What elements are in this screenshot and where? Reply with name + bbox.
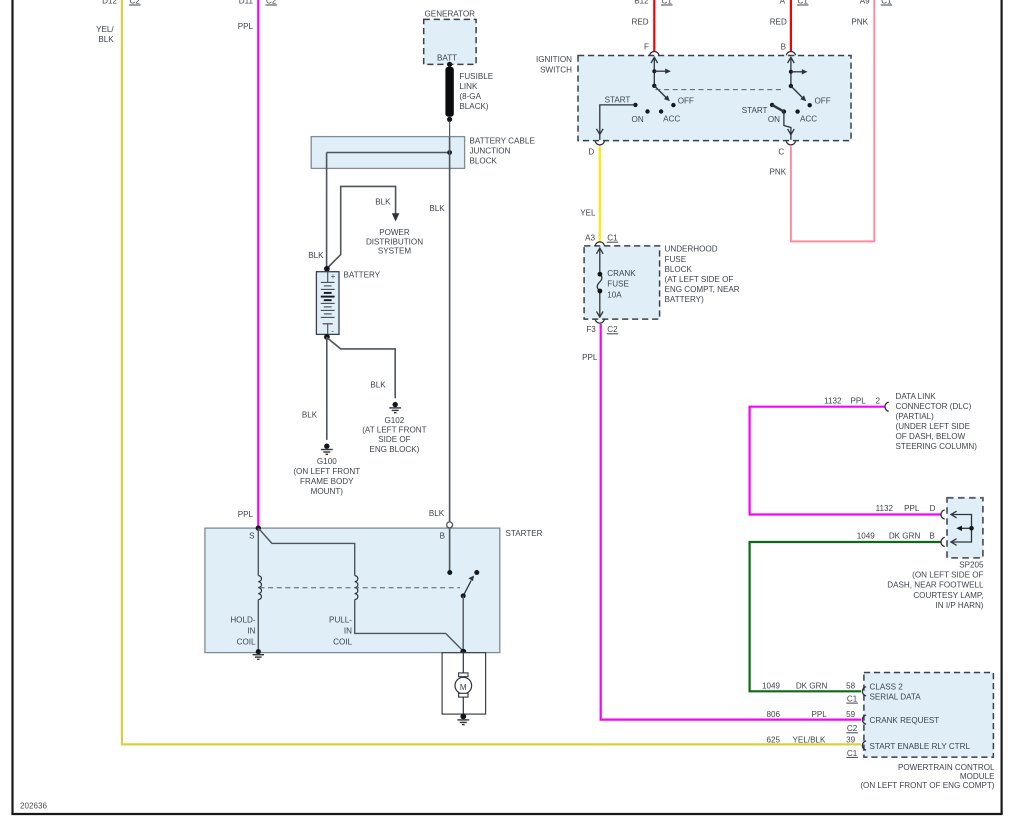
svg-text:POWER: POWER — [379, 228, 410, 237]
svg-text:58: 58 — [846, 681, 856, 690]
svg-text:F3: F3 — [586, 325, 596, 334]
crank fuse 10A — [597, 248, 604, 317]
svg-text:BLK: BLK — [375, 197, 391, 206]
svg-text:F: F — [644, 43, 649, 52]
generator U1 dashed box — [424, 19, 476, 64]
wire RED A C1 to ignition B — [790, 0, 792, 51]
svg-text:DK GRN: DK GRN — [889, 532, 921, 541]
starter box — [205, 528, 500, 653]
svg-text:202636: 202636 — [20, 802, 48, 811]
node S — [256, 525, 261, 530]
svg-text:YEL: YEL — [580, 208, 596, 217]
svg-text:RED: RED — [770, 17, 787, 26]
svg-text:ENG BLOCK): ENG BLOCK) — [369, 445, 419, 454]
connector B arc — [786, 51, 795, 55]
svg-text:39: 39 — [846, 736, 856, 745]
svg-text:1132: 1132 — [876, 504, 894, 513]
svg-text:10A: 10A — [607, 290, 622, 299]
svg-text:YEL/BLK: YEL/BLK — [793, 736, 826, 745]
PCM pin 39 connector arc — [862, 741, 866, 750]
svg-text:B: B — [781, 43, 786, 52]
splice SP205 dashed box — [947, 498, 983, 558]
svg-text:LINK: LINK — [459, 82, 478, 91]
battery BT1 — [324, 266, 330, 272]
svg-text:D: D — [588, 148, 594, 157]
svg-text:OFF: OFF — [815, 96, 831, 105]
connector F3 C2 arc — [595, 319, 604, 323]
pole 1 horizontal arrow — [654, 70, 667, 72]
PCM pin 59 connector arc — [862, 715, 866, 724]
pole 2 junction node — [789, 70, 793, 74]
svg-text:CRANK REQUEST: CRANK REQUEST — [870, 716, 940, 725]
pole 2 blade START to ON — [772, 105, 784, 112]
ignition pole 2: feed line with up arrow — [788, 57, 795, 86]
svg-text:BATTERY: BATTERY — [344, 271, 381, 280]
wire DK GRN SP205 to PCM class 2 — [750, 542, 942, 691]
hold-in coil L1 — [258, 576, 261, 600]
svg-text:BATTERY): BATTERY) — [665, 295, 705, 304]
svg-text:BATTERY CABLE: BATTERY CABLE — [470, 137, 536, 146]
connector F arc — [650, 51, 659, 55]
svg-text:-: - — [331, 326, 334, 335]
ground G100 — [324, 444, 329, 449]
svg-text:RED: RED — [632, 17, 649, 26]
svg-text:BLK: BLK — [429, 509, 445, 518]
svg-text:B: B — [440, 531, 445, 540]
battery cable junction block — [311, 137, 464, 169]
svg-text:ENG COMPT, NEAR: ENG COMPT, NEAR — [665, 285, 740, 294]
svg-text:ON: ON — [632, 115, 644, 124]
svg-text:C1: C1 — [847, 749, 858, 758]
svg-text:(AT LEFT FRONT: (AT LEFT FRONT — [362, 425, 426, 434]
svg-text:STEERING COLUMN): STEERING COLUMN) — [896, 442, 978, 451]
svg-text:CRANK: CRANK — [607, 269, 636, 278]
svg-text:MODULE: MODULE — [960, 772, 995, 781]
ground G102 — [393, 402, 398, 407]
svg-text:S: S — [249, 531, 255, 540]
junction node on bus — [447, 150, 452, 155]
svg-text:C: C — [778, 148, 784, 157]
svg-text:G100: G100 — [317, 457, 337, 466]
svg-text:ACC: ACC — [800, 115, 817, 124]
svg-text:PPL: PPL — [238, 22, 254, 31]
fusible link F (8-GA black) — [445, 67, 453, 117]
svg-text:FRAME BODY: FRAME BODY — [300, 477, 354, 486]
connector D arc on SP205 — [941, 510, 945, 519]
svg-text:2: 2 — [875, 397, 880, 406]
svg-text:SP205: SP205 — [959, 560, 984, 569]
svg-text:C1: C1 — [607, 234, 618, 243]
svg-text:OFF: OFF — [678, 96, 694, 105]
svg-text:PNK: PNK — [770, 168, 787, 177]
wire from B into switch contact — [449, 528, 451, 570]
svg-text:A9: A9 — [860, 0, 870, 6]
svg-text:+: + — [331, 272, 336, 281]
svg-text:PPL: PPL — [904, 504, 920, 513]
svg-text:625: 625 — [766, 736, 780, 745]
svg-text:MOUNT): MOUNT) — [311, 487, 344, 496]
svg-text:COURTESY LAMP,: COURTESY LAMP, — [913, 591, 983, 600]
pole 2 horizontal arrow — [791, 71, 804, 73]
svg-text:BLOCK: BLOCK — [665, 265, 693, 274]
pole 1 blade toward OFF — [654, 86, 667, 99]
wire YEL/BLK from D12 C2 (left vertical + bottom horizontal to PCM pin 39) — [122, 0, 861, 744]
pole 1 contacts START ON ACC OFF — [633, 103, 637, 107]
svg-text:CLASS 2: CLASS 2 — [870, 682, 904, 691]
svg-text:SYSTEM: SYSTEM — [378, 247, 412, 256]
svg-text:(UNDER LEFT SIDE: (UNDER LEFT SIDE — [896, 422, 971, 431]
svg-text:D: D — [930, 504, 936, 513]
connector A3 C1 arc — [595, 242, 604, 246]
svg-text:GENERATOR: GENERATOR — [425, 9, 476, 18]
svg-text:START: START — [742, 106, 768, 115]
wire BLK bus to battery + — [326, 153, 328, 269]
svg-text:BLK: BLK — [98, 35, 114, 44]
arrow to power distribution system — [392, 213, 400, 221]
mechanical link dashed in starter — [260, 587, 461, 589]
svg-text:(ON LEFT FRONT: (ON LEFT FRONT — [293, 467, 360, 476]
svg-text:BLACK): BLACK) — [459, 102, 489, 111]
svg-text:DASH, NEAR FOOTWELL: DASH, NEAR FOOTWELL — [887, 581, 984, 590]
svg-text:A3: A3 — [585, 234, 595, 243]
svg-text:A: A — [780, 0, 786, 6]
svg-text:(ON LEFT FRONT OF ENG COMPT): (ON LEFT FRONT OF ENG COMPT) — [860, 781, 994, 790]
svg-text:STARTER: STARTER — [506, 529, 543, 538]
svg-text:PPL: PPL — [811, 710, 827, 719]
svg-text:BATT: BATT — [437, 54, 457, 63]
svg-text:BLK: BLK — [302, 410, 318, 419]
solenoid blade with arrow — [463, 581, 471, 596]
svg-text:G102: G102 — [384, 416, 404, 425]
underhood fuse block dashed box — [584, 246, 660, 319]
wire BLK battery to power distribution arrow — [327, 186, 396, 268]
wire PPL fuse block to PCM crank request — [601, 324, 861, 720]
svg-text:BLK: BLK — [370, 381, 386, 390]
svg-text:IN I/P HARN): IN I/P HARN) — [936, 601, 984, 610]
pole 1 pivot node — [652, 84, 656, 88]
wire YEL from D to underhood fuse block — [599, 146, 601, 242]
wire motor to ground — [462, 697, 464, 714]
wire S to hold-in coil — [257, 528, 259, 576]
svg-text:C1: C1 — [847, 695, 858, 704]
wire pull-in coil to common node — [355, 600, 464, 652]
svg-text:D11: D11 — [239, 0, 254, 6]
svg-text:C2: C2 — [607, 325, 618, 334]
svg-text:D12: D12 — [102, 0, 117, 6]
ground at hold-in coil — [256, 649, 261, 654]
connector D arc — [595, 141, 604, 145]
svg-text:JUNCTION: JUNCTION — [470, 147, 511, 156]
ignition switch SW1 dashed box — [578, 56, 851, 141]
svg-text:DISTRIBUTION: DISTRIBUTION — [366, 237, 423, 246]
svg-text:IGNITION: IGNITION — [536, 55, 572, 64]
svg-text:PPL: PPL — [238, 510, 254, 519]
common node on starter bottom edge — [460, 649, 466, 655]
wire blade to common node — [462, 596, 464, 652]
svg-text:YEL/: YEL/ — [96, 25, 114, 34]
svg-text:SERIAL DATA: SERIAL DATA — [870, 693, 922, 702]
connector arc at DLC pin 2 — [885, 402, 889, 411]
svg-text:SIDE OF: SIDE OF — [378, 435, 410, 444]
svg-text:B12: B12 — [634, 0, 649, 6]
svg-text:M: M — [460, 683, 467, 692]
svg-text:1132: 1132 — [824, 397, 842, 406]
wire RED B12 C1 to ignition F — [653, 0, 655, 51]
splice internal bus — [951, 511, 972, 545]
svg-text:UNDERHOOD: UNDERHOOD — [665, 245, 718, 254]
svg-text:FUSE: FUSE — [607, 280, 629, 289]
ignition pole 1: feed line with up arrow — [651, 57, 658, 86]
svg-text:BLK: BLK — [308, 251, 324, 260]
svg-text:COIL: COIL — [237, 637, 256, 646]
svg-text:(AT LEFT SIDE OF: (AT LEFT SIDE OF — [665, 275, 734, 284]
wire PPL branch to DLC and SP205 — [750, 407, 942, 515]
wire node to motor — [462, 652, 464, 673]
svg-text:(8-GA: (8-GA — [459, 92, 481, 101]
svg-text:C2: C2 — [847, 724, 858, 733]
svg-text:START ENABLE RLY CTRL: START ENABLE RLY CTRL — [870, 742, 971, 751]
pole 2 contacts START ON ACC OFF — [770, 103, 774, 107]
ground at motor — [460, 714, 466, 720]
wire BLK battery - to G102 — [327, 338, 395, 399]
svg-text:DK GRN: DK GRN — [796, 681, 828, 690]
wire BLK battery - to G100 — [326, 337, 328, 440]
motor housing box — [442, 653, 486, 714]
svg-text:PULL-: PULL- — [329, 615, 352, 624]
wire from START contact to connector D — [600, 105, 636, 134]
wire S to pull-in coil — [259, 528, 355, 575]
svg-text:1049: 1049 — [857, 532, 876, 541]
pull-in coil L2 — [355, 576, 358, 600]
svg-text:HOLD-: HOLD- — [230, 615, 255, 624]
svg-text:DATA LINK: DATA LINK — [896, 392, 937, 401]
svg-text:PPL: PPL — [850, 397, 866, 406]
connector B arc on SP205 — [941, 537, 945, 546]
connector C arc — [786, 141, 795, 145]
wire BLK junction block to starter B — [449, 137, 451, 522]
svg-text:POWERTRAIN CONTROL: POWERTRAIN CONTROL — [898, 763, 995, 772]
wire hold-in coil to ground — [257, 600, 259, 651]
svg-text:IN: IN — [247, 626, 255, 635]
svg-text:START: START — [605, 96, 631, 105]
svg-text:BLK: BLK — [429, 204, 445, 213]
powertrain control module dashed box — [864, 673, 994, 758]
svg-text:(ON LEFT SIDE OF: (ON LEFT SIDE OF — [912, 571, 983, 580]
svg-text:PPL: PPL — [582, 353, 598, 362]
svg-text:ON: ON — [768, 115, 780, 124]
starter solenoid contacts — [447, 570, 452, 575]
svg-text:CONNECTOR (DLC): CONNECTOR (DLC) — [896, 402, 972, 411]
wire from ON contact to connector C — [784, 112, 791, 135]
svg-text:59: 59 — [846, 710, 856, 719]
PCM pin 58 connector arc — [862, 687, 866, 696]
svg-text:B: B — [929, 532, 934, 541]
pole 2 pivot node — [789, 84, 793, 88]
svg-text:OF DASH, BELOW: OF DASH, BELOW — [896, 432, 966, 441]
motor M1 — [459, 673, 468, 677]
svg-text:PNK: PNK — [851, 17, 868, 26]
mechanical link dashed between poles — [656, 89, 785, 91]
wire PNK A9 C1 down and left to ignition C — [791, 0, 874, 241]
bus wire inside junction block — [327, 152, 450, 154]
svg-text:FUSE: FUSE — [665, 255, 687, 264]
svg-text:(PARTIAL): (PARTIAL) — [896, 412, 935, 421]
svg-text:BLOCK: BLOCK — [470, 157, 498, 166]
svg-text:806: 806 — [766, 710, 780, 719]
svg-text:ACC: ACC — [663, 115, 680, 124]
terminal B open circle — [447, 522, 453, 528]
wire PPL from D11 C2 down to starter S — [257, 0, 259, 528]
svg-text:SWITCH: SWITCH — [540, 66, 572, 75]
svg-text:IN: IN — [344, 626, 352, 635]
svg-text:1049: 1049 — [762, 681, 781, 690]
pole 1 junction node — [652, 69, 656, 73]
pole 2 blade toward OFF — [791, 86, 804, 99]
svg-text:FUSIBLE: FUSIBLE — [459, 72, 493, 81]
svg-text:COIL: COIL — [333, 637, 352, 646]
